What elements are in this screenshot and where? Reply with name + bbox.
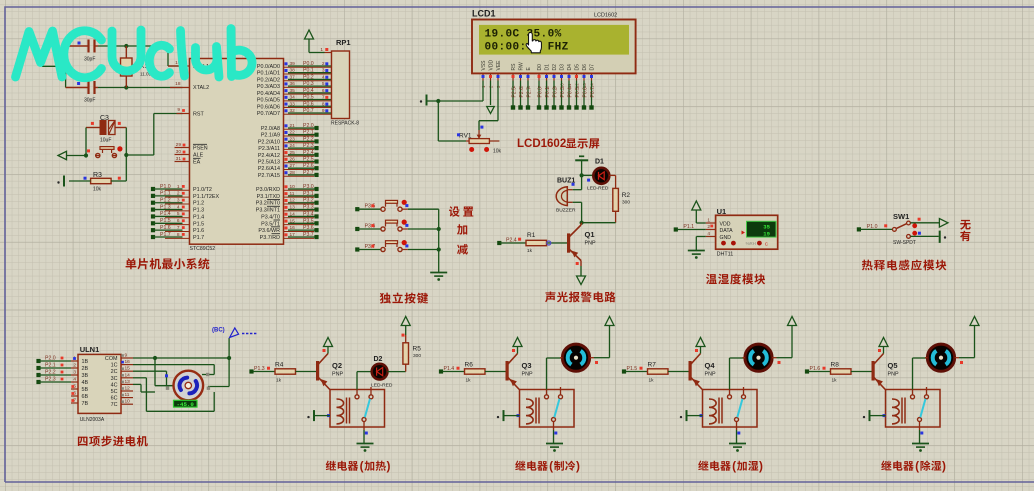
svg-text:26: 26 bbox=[290, 157, 296, 163]
P1.0-P1.7 terminals and wires bbox=[151, 184, 190, 239]
svg-text:P1.0: P1.0 bbox=[160, 184, 171, 190]
svg-text:D3: D3 bbox=[560, 64, 566, 71]
svg-text:P3.1/TXD: P3.1/TXD bbox=[257, 194, 280, 200]
svg-text:300: 300 bbox=[622, 200, 630, 206]
svg-text:D2: D2 bbox=[374, 356, 383, 363]
svg-text:6B: 6B bbox=[82, 394, 89, 400]
wire Q1 collector bbox=[580, 223, 583, 225]
caption 减 bbox=[457, 244, 468, 255]
svg-text:ALE: ALE bbox=[193, 153, 204, 159]
svg-text:EA: EA bbox=[193, 160, 201, 166]
svg-text:Q3: Q3 bbox=[522, 361, 532, 370]
wire R7 to base bbox=[668, 371, 689, 373]
svg-text:P1.2: P1.2 bbox=[160, 198, 171, 204]
LCD text line2 bbox=[485, 42, 569, 54]
svg-text:P3.2: P3.2 bbox=[303, 198, 314, 204]
relay coil R4 bbox=[337, 398, 350, 424]
wire R5 to power bbox=[402, 326, 406, 343]
capacitor C3 (10uF) bbox=[86, 115, 126, 144]
caption 声光报警电路 bbox=[545, 292, 616, 303]
wire XTAL1 net (C1 top rail) bbox=[42, 44, 183, 88]
svg-text:D7: D7 bbox=[590, 64, 596, 71]
svg-text:R5: R5 bbox=[413, 346, 422, 353]
svg-text:PNP: PNP bbox=[705, 372, 716, 378]
watermark MCUclub bbox=[16, 29, 253, 78]
svg-text:): ) bbox=[576, 459, 580, 473]
svg-text:10k: 10k bbox=[93, 187, 102, 193]
svg-text:P0.4: P0.4 bbox=[568, 87, 574, 98]
svg-text:ULN1: ULN1 bbox=[80, 345, 100, 354]
svg-text:P0.3/AD3: P0.3/AD3 bbox=[257, 84, 280, 90]
power terminal above Q3 bbox=[513, 338, 522, 347]
svg-text:14: 14 bbox=[125, 372, 131, 378]
svg-text:17: 17 bbox=[290, 232, 296, 238]
wire P2.4 to R1 bbox=[500, 242, 526, 244]
relay contacts R4 bbox=[355, 387, 373, 430]
svg-text:P2.1: P2.1 bbox=[303, 130, 314, 136]
power terminal right arrow 无 bbox=[939, 219, 948, 228]
svg-text:P1.0/T2: P1.0/T2 bbox=[193, 187, 212, 193]
svg-text:P0.4: P0.4 bbox=[303, 88, 314, 94]
power terminal above RP1 bbox=[305, 30, 325, 53]
wire R3 leads bbox=[69, 180, 126, 182]
svg-text:VDD: VDD bbox=[720, 221, 731, 227]
svg-text:2C: 2C bbox=[111, 369, 118, 375]
resistor R8 bbox=[831, 362, 852, 384]
svg-text:13: 13 bbox=[290, 205, 296, 211]
power terminal above Q5 bbox=[879, 338, 888, 347]
wire Q4 collector to power bbox=[695, 346, 701, 354]
svg-text:P0.1/AD1: P0.1/AD1 bbox=[257, 71, 280, 77]
svg-text:31: 31 bbox=[176, 156, 182, 162]
LCD wire labels P2.5-P2.7 P0.0-P0.7 bbox=[512, 87, 597, 98]
svg-text:7: 7 bbox=[322, 95, 325, 101]
LCD data/control wires to terminals bbox=[511, 81, 594, 110]
svg-text:4: 4 bbox=[707, 231, 710, 237]
motor at R7 bbox=[743, 344, 781, 371]
bar terminal 有 bbox=[940, 231, 947, 243]
svg-text:P3.0/RXD: P3.0/RXD bbox=[256, 187, 280, 193]
power terminal motor R6 bbox=[605, 317, 614, 326]
svg-text:5C: 5C bbox=[111, 389, 118, 395]
svg-text:LCD1: LCD1 bbox=[472, 9, 496, 19]
wire Q1 emitter down bbox=[576, 261, 581, 277]
stepper motor bbox=[166, 371, 210, 401]
pin 31 stub bbox=[175, 156, 190, 162]
relay box R4 bbox=[330, 390, 385, 428]
wire LCD VSS to ground bbox=[436, 81, 483, 104]
wire 4C net bbox=[133, 384, 155, 392]
svg-text:1k: 1k bbox=[832, 378, 838, 384]
pin 9 RST stub bbox=[177, 107, 190, 114]
svg-text:VEE: VEE bbox=[496, 60, 502, 71]
wire relay common to ground R7 bbox=[737, 430, 741, 444]
svg-text:LCD1602: LCD1602 bbox=[517, 138, 566, 150]
svg-text:D0: D0 bbox=[537, 64, 543, 71]
caption 无 bbox=[960, 220, 971, 230]
transistor Q1 bbox=[567, 225, 596, 261]
svg-text:P2.2: P2.2 bbox=[45, 370, 56, 376]
wire XTAL2 net (C2 bottom rail) bbox=[98, 85, 183, 89]
svg-text:6: 6 bbox=[177, 218, 180, 224]
svg-text:LED-RED: LED-RED bbox=[587, 185, 609, 191]
buzzer BUZ1 bbox=[556, 178, 576, 214]
svg-text:COM: COM bbox=[105, 356, 118, 362]
resistor R4 bbox=[275, 362, 296, 384]
svg-text:3: 3 bbox=[73, 370, 76, 376]
ULN1 right pin stubs bbox=[121, 353, 133, 405]
svg-text:30pF: 30pF bbox=[84, 98, 95, 104]
switch SW1 SW-SPDT bbox=[893, 212, 921, 246]
wire P1.4 to R6 bbox=[443, 371, 465, 373]
RP1 pin 1 bbox=[320, 47, 331, 53]
resistor R2 bbox=[613, 188, 631, 211]
wire P1.5 to R7 bbox=[626, 371, 648, 373]
ULN1 left pin stubs bbox=[71, 356, 78, 404]
svg-text:19: 19 bbox=[763, 231, 770, 238]
wire RST net bbox=[126, 114, 182, 156]
ULN1 pin names bbox=[82, 356, 119, 408]
svg-text:3C: 3C bbox=[111, 376, 118, 382]
svg-text:16: 16 bbox=[125, 359, 131, 365]
wire motor to power R8 bbox=[959, 326, 975, 358]
svg-text:7: 7 bbox=[177, 225, 180, 231]
svg-text:9: 9 bbox=[177, 107, 180, 113]
svg-text:30pF: 30pF bbox=[84, 57, 95, 63]
P2.0-P2.7 wires and terminals bbox=[284, 123, 319, 177]
svg-text:P2.6: P2.6 bbox=[519, 87, 525, 98]
wire 1C net bbox=[133, 365, 214, 375]
svg-text:9: 9 bbox=[125, 353, 128, 359]
svg-text:36: 36 bbox=[290, 81, 296, 87]
svg-text:3: 3 bbox=[322, 68, 325, 74]
svg-text:P1.1/T2EX: P1.1/T2EX bbox=[193, 194, 219, 200]
svg-text:12: 12 bbox=[290, 198, 296, 204]
svg-text:27: 27 bbox=[290, 163, 296, 169]
relay box R7 bbox=[703, 390, 758, 428]
power terminal left arrow bbox=[58, 151, 67, 159]
wire relay common to ground R8 bbox=[920, 430, 924, 444]
svg-text:35: 35 bbox=[290, 88, 296, 94]
wire alarm VCC node bbox=[580, 173, 593, 189]
svg-text:): ) bbox=[942, 459, 946, 473]
svg-text:SW1: SW1 bbox=[893, 212, 909, 221]
svg-text:Q2: Q2 bbox=[332, 361, 342, 370]
ground DHT11 bbox=[688, 251, 705, 259]
svg-text:P0.3: P0.3 bbox=[560, 87, 566, 98]
svg-text:STC89C52: STC89C52 bbox=[190, 246, 216, 252]
terminal P2.4 bbox=[497, 238, 521, 246]
svg-text:P3.6: P3.6 bbox=[303, 225, 314, 231]
svg-text:4: 4 bbox=[177, 204, 180, 210]
ground below relay R6 bbox=[546, 444, 563, 452]
svg-text:P1.5: P1.5 bbox=[160, 218, 171, 224]
ground below relay R7 bbox=[729, 444, 746, 452]
svg-text:P0.5: P0.5 bbox=[303, 95, 314, 101]
wire Q5 collector to power bbox=[878, 346, 884, 354]
svg-text:P2.4: P2.4 bbox=[303, 150, 314, 156]
svg-text:2: 2 bbox=[73, 363, 76, 369]
resistor R5 bbox=[403, 343, 421, 364]
chip U2 body (STC89C52) bbox=[190, 52, 284, 252]
reset button bbox=[87, 146, 123, 157]
svg-text:(: ( bbox=[549, 459, 553, 473]
svg-text:11: 11 bbox=[125, 392, 130, 398]
wire relay common to ground R4 bbox=[364, 430, 368, 444]
svg-text:Q5: Q5 bbox=[888, 361, 898, 370]
ground under buttons bbox=[430, 273, 447, 281]
P3.0-P3.7 wires and terminals bbox=[284, 184, 319, 239]
svg-text:1: 1 bbox=[320, 47, 323, 53]
terminal P1.5 bbox=[622, 366, 643, 374]
svg-text:P1.2: P1.2 bbox=[193, 201, 204, 207]
LCD text line1 bbox=[485, 28, 562, 40]
svg-text:13: 13 bbox=[125, 379, 131, 385]
relay coil R6 bbox=[526, 398, 539, 424]
svg-text:P1.3: P1.3 bbox=[160, 204, 171, 210]
svg-text:RS: RS bbox=[511, 63, 517, 71]
wire P1.0 to SW1 bbox=[860, 228, 893, 230]
svg-text:PSEN: PSEN bbox=[193, 146, 208, 152]
power terminal motor R8 bbox=[970, 317, 979, 326]
svg-text:2: 2 bbox=[177, 191, 180, 197]
svg-text:R2: R2 bbox=[622, 192, 631, 199]
wire motor to power R6 bbox=[594, 326, 610, 358]
probe (BC) bbox=[212, 328, 258, 338]
transistor Q3 bbox=[506, 354, 533, 390]
svg-text:10k: 10k bbox=[493, 149, 502, 155]
terminal P1.1 bbox=[674, 224, 694, 232]
svg-text:P3.7/RD: P3.7/RD bbox=[260, 235, 280, 241]
svg-text:39: 39 bbox=[290, 61, 296, 67]
svg-text:2: 2 bbox=[707, 224, 710, 230]
svg-text:33: 33 bbox=[290, 101, 296, 107]
svg-text:2: 2 bbox=[322, 61, 325, 67]
relay box R8 bbox=[886, 390, 941, 428]
wire P1.1 to DATA bbox=[677, 229, 706, 231]
LED D2 bbox=[371, 356, 393, 389]
wire Q3 collector to power bbox=[512, 346, 518, 354]
svg-text:19.0C 35.0%: 19.0C 35.0% bbox=[485, 28, 562, 40]
svg-text:P2.4/A12: P2.4/A12 bbox=[258, 153, 280, 159]
wire VDD bbox=[696, 222, 706, 224]
svg-text:P3.5/T1: P3.5/T1 bbox=[261, 221, 280, 227]
sensor U1 DHT11 bbox=[706, 207, 778, 258]
wire buzzer pins bbox=[573, 190, 582, 223]
ground terminal LCD bbox=[420, 95, 439, 106]
wire R2 bottom to node bbox=[580, 211, 616, 224]
svg-text:1C: 1C bbox=[111, 363, 118, 369]
svg-text:ULN2003A: ULN2003A bbox=[80, 417, 105, 423]
svg-text:7B: 7B bbox=[82, 401, 89, 407]
svg-text:P2.0: P2.0 bbox=[303, 123, 314, 129]
resistor R6 bbox=[465, 362, 486, 384]
pin 29 stub bbox=[175, 142, 190, 148]
transistor Q5 bbox=[872, 354, 899, 390]
chip U2 right pin names bbox=[256, 64, 280, 241]
wire ground bus to RV1 bbox=[438, 101, 466, 141]
svg-text:10uF: 10uF bbox=[100, 138, 111, 144]
svg-text:1k: 1k bbox=[649, 378, 655, 384]
svg-text:1k: 1k bbox=[276, 378, 282, 384]
pin 18 XTAL2 stub bbox=[170, 81, 190, 88]
svg-text:3B: 3B bbox=[82, 373, 89, 379]
pin 30 stub bbox=[175, 149, 190, 155]
terminal P1.4 bbox=[439, 366, 460, 374]
terminal P1.3 bbox=[249, 366, 270, 374]
svg-text:14: 14 bbox=[290, 211, 296, 217]
svg-text:DATA: DATA bbox=[720, 228, 734, 234]
push button P3.5 bbox=[381, 200, 439, 212]
svg-text:8: 8 bbox=[177, 232, 180, 238]
relay blade R7 bbox=[737, 399, 742, 418]
button P3.7 terminal+wire bbox=[355, 244, 381, 252]
svg-text:23: 23 bbox=[290, 136, 296, 142]
relay contacts R8 bbox=[911, 387, 929, 430]
svg-text:28: 28 bbox=[290, 170, 296, 176]
relay blade R8 bbox=[920, 399, 925, 418]
wire COM net bbox=[133, 338, 231, 387]
wire R4 to base bbox=[296, 371, 317, 373]
wire button bus vertical bbox=[437, 209, 441, 272]
svg-text:P0.6: P0.6 bbox=[583, 87, 589, 98]
svg-text:RST: RST bbox=[193, 112, 204, 118]
caption LCD1602显示屏 bbox=[517, 138, 599, 150]
power terminal above Q4 bbox=[696, 338, 705, 347]
svg-text:P1.6: P1.6 bbox=[160, 225, 171, 231]
terminal P1.0 bbox=[857, 224, 887, 232]
caption 继电器(制冷) bbox=[515, 459, 580, 473]
svg-text:(: ( bbox=[732, 459, 736, 473]
resistor R3 bbox=[84, 172, 121, 193]
resistor R7 bbox=[648, 362, 669, 384]
push button P3.7 bbox=[381, 240, 439, 252]
svg-text:P1.6: P1.6 bbox=[193, 228, 204, 234]
wire SW1 bottom throw bbox=[910, 235, 938, 237]
transistor Q4 bbox=[689, 354, 716, 390]
caption 温湿度模块 bbox=[706, 274, 765, 285]
svg-text:XTAL2: XTAL2 bbox=[193, 85, 209, 91]
svg-text:Q1: Q1 bbox=[585, 230, 595, 239]
svg-text:5B: 5B bbox=[82, 387, 89, 393]
relay coil ground R7 bbox=[680, 410, 703, 421]
svg-text:P3.3: P3.3 bbox=[303, 205, 314, 211]
svg-text:38: 38 bbox=[290, 68, 296, 74]
svg-text:P3.6/WR: P3.6/WR bbox=[258, 228, 280, 234]
LCD pin names and stubs bbox=[481, 60, 596, 88]
wire motor to power R7 bbox=[777, 326, 793, 358]
svg-text:P0.0/AD0: P0.0/AD0 bbox=[257, 64, 280, 70]
svg-text:P3.1: P3.1 bbox=[303, 191, 314, 197]
svg-text:4: 4 bbox=[322, 74, 325, 80]
svg-text:1: 1 bbox=[707, 218, 710, 224]
svg-text:P2.7/A15: P2.7/A15 bbox=[258, 173, 280, 179]
svg-text:P3.4: P3.4 bbox=[303, 211, 314, 217]
svg-text:P0.7: P0.7 bbox=[590, 87, 596, 98]
wire 2C net bbox=[133, 371, 174, 386]
svg-text:34: 34 bbox=[290, 95, 296, 101]
svg-text:P0.7: P0.7 bbox=[303, 108, 314, 114]
svg-text:SW-SPDT: SW-SPDT bbox=[893, 240, 916, 246]
relay contacts R7 bbox=[728, 387, 746, 430]
driver ULN1 body bbox=[78, 345, 121, 423]
power terminal motor R7 bbox=[788, 317, 797, 326]
svg-text:P2.3: P2.3 bbox=[303, 143, 314, 149]
wire relay to motor R6 bbox=[547, 358, 563, 390]
svg-text:D2: D2 bbox=[552, 64, 558, 71]
relay coil ground R6 bbox=[497, 410, 520, 421]
svg-text:P2.0: P2.0 bbox=[45, 356, 56, 362]
svg-text:LED-RED: LED-RED bbox=[371, 383, 393, 389]
wire R1 to Q1 base bbox=[547, 241, 568, 245]
power terminal VDD down-arrow bbox=[487, 81, 495, 114]
power terminal above alarm (inverted ground) bbox=[575, 156, 588, 175]
wire D1 to R2 bbox=[609, 175, 615, 188]
wire relay1 to D2 bbox=[357, 372, 372, 390]
relay box R6 bbox=[520, 390, 575, 428]
svg-text:P0.6: P0.6 bbox=[303, 101, 314, 107]
wire R6 to base bbox=[485, 371, 506, 373]
svg-text:P2.5/A13: P2.5/A13 bbox=[258, 160, 280, 166]
wire P1.3 to R4 bbox=[253, 371, 275, 373]
wire SW1 top throw bbox=[910, 222, 939, 224]
svg-text:D5: D5 bbox=[575, 64, 581, 71]
relay coil R7 bbox=[709, 398, 722, 424]
power terminal below Q1 (down arrow) bbox=[577, 276, 586, 285]
svg-text:300: 300 bbox=[413, 353, 421, 359]
svg-text:P2.7: P2.7 bbox=[303, 170, 314, 176]
svg-text:BUZZER: BUZZER bbox=[556, 208, 576, 214]
svg-text:P3.5: P3.5 bbox=[303, 218, 314, 224]
button P3.6 terminal+wire bbox=[355, 224, 381, 232]
caption 设置 bbox=[449, 206, 473, 216]
svg-text:4: 4 bbox=[73, 377, 76, 383]
svg-text:P0.5: P0.5 bbox=[575, 87, 581, 98]
svg-text:5: 5 bbox=[322, 81, 325, 87]
svg-text:24: 24 bbox=[290, 143, 296, 149]
svg-text:R8: R8 bbox=[831, 362, 840, 369]
chip U2 left pin names bbox=[193, 64, 219, 241]
transistor Q2 bbox=[316, 354, 343, 390]
svg-text:16: 16 bbox=[290, 225, 296, 231]
caption 继电器(除湿) bbox=[881, 459, 946, 473]
svg-text:(BC): (BC) bbox=[212, 328, 225, 334]
svg-text:P2.1: P2.1 bbox=[45, 363, 56, 369]
caption 四项步进电机 bbox=[78, 436, 148, 447]
svg-text:RW: RW bbox=[519, 62, 525, 71]
P0 bus wires MCU to RP1 bbox=[284, 61, 332, 114]
svg-text:VDD: VDD bbox=[489, 60, 495, 71]
power terminal above R5 bbox=[401, 317, 410, 326]
svg-text:1k: 1k bbox=[527, 248, 533, 254]
svg-text:P3.7: P3.7 bbox=[303, 232, 314, 238]
svg-text:D6: D6 bbox=[582, 64, 588, 71]
relay coil ground R8 bbox=[863, 410, 886, 421]
svg-text:-45.0: -45.0 bbox=[176, 401, 194, 408]
relay contacts R6 bbox=[545, 387, 563, 430]
svg-text:P1.4: P1.4 bbox=[193, 214, 204, 220]
caption 继电器(加热) bbox=[326, 459, 391, 473]
svg-text:RESPACK-8: RESPACK-8 bbox=[331, 121, 359, 127]
svg-text:6: 6 bbox=[322, 88, 325, 94]
svg-text:9: 9 bbox=[322, 108, 325, 114]
LCD1 display body bbox=[472, 9, 636, 74]
svg-text:P2.3: P2.3 bbox=[45, 377, 56, 383]
svg-text:8: 8 bbox=[322, 101, 325, 107]
svg-text:P2.0/A8: P2.0/A8 bbox=[261, 126, 280, 132]
svg-text:P2.6: P2.6 bbox=[303, 163, 314, 169]
wire GND to ground bbox=[696, 237, 706, 251]
